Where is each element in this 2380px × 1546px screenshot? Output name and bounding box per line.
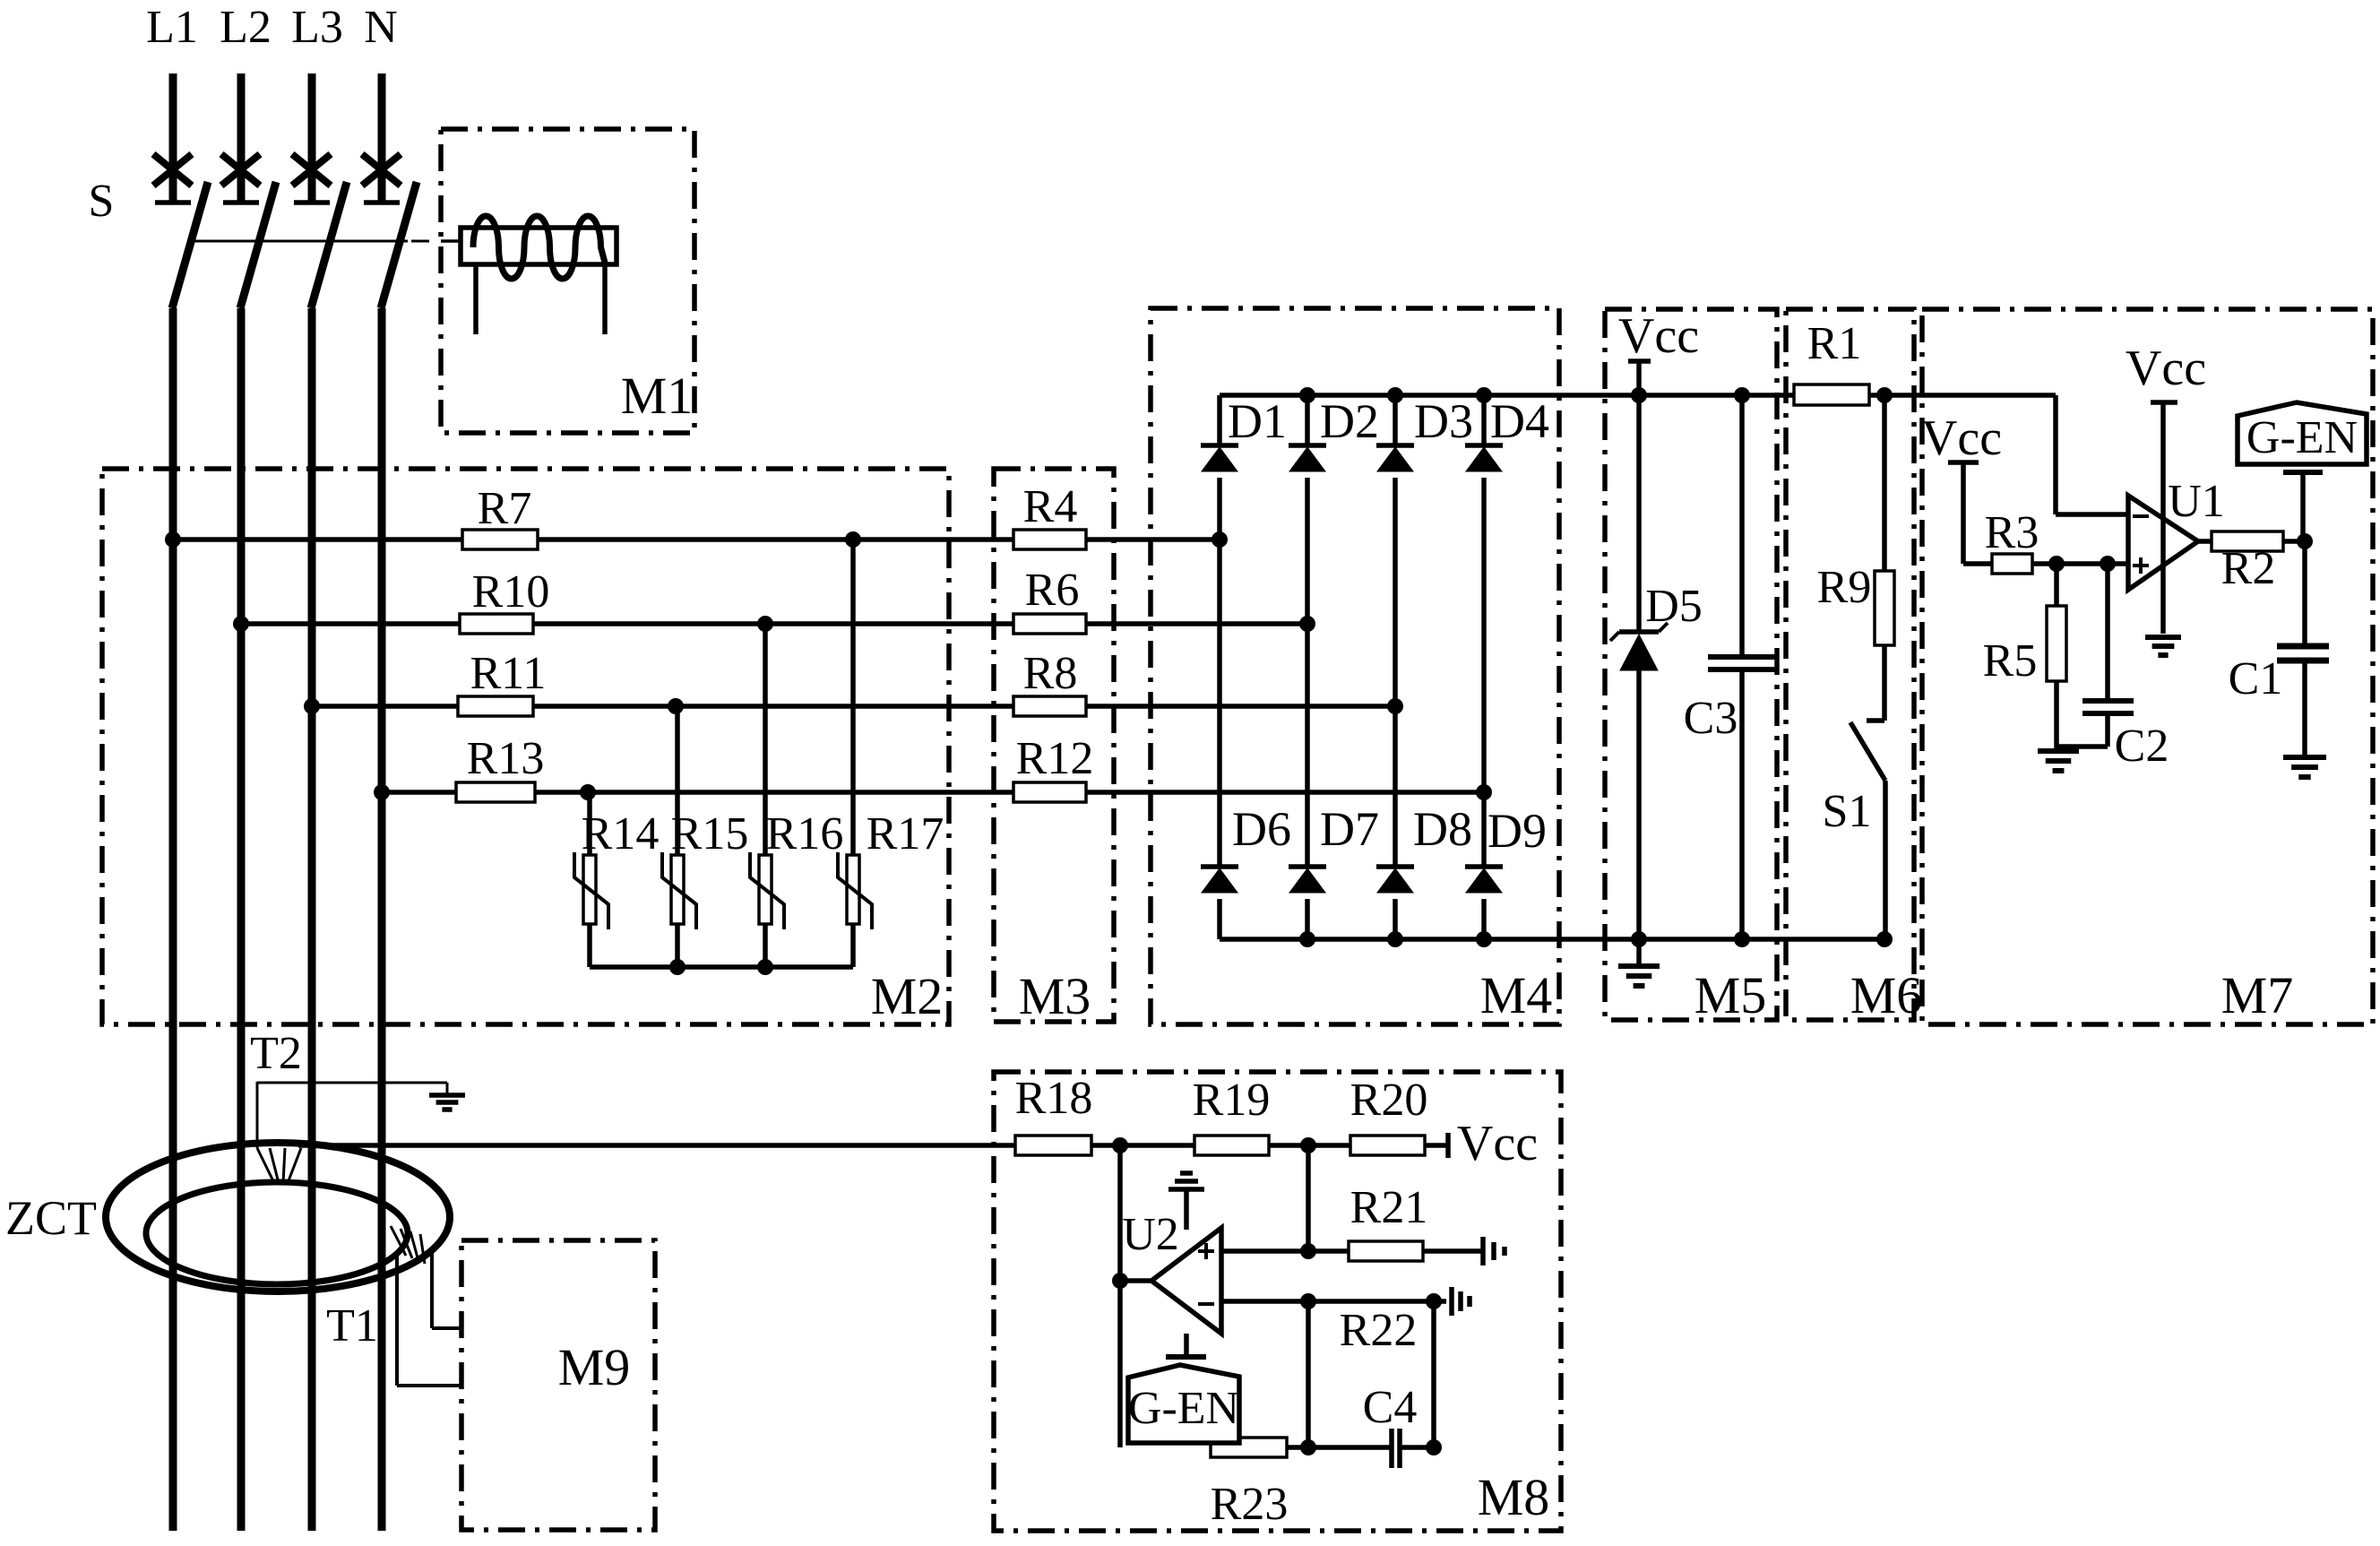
svg-text:R9: R9 [1817,562,1872,613]
svg-text:M7: M7 [2221,966,2294,1024]
svg-text:R14: R14 [582,808,660,859]
svg-text:T1: T1 [326,1300,378,1352]
svg-text:R18: R18 [1015,1073,1093,1124]
svg-text:M9: M9 [558,1338,631,1396]
svg-text:C1: C1 [2229,653,2283,704]
svg-text:R6: R6 [1025,565,1080,616]
svg-text:M1: M1 [621,367,694,425]
svg-text:R12: R12 [1016,733,1094,784]
svg-text:D9: D9 [1487,804,1547,858]
svg-text:D7: D7 [1320,802,1379,856]
svg-text:S: S [89,176,115,227]
svg-text:D2: D2 [1320,394,1379,448]
svg-text:Vcc: Vcc [2126,341,2206,396]
svg-text:G-EN: G-EN [2246,412,2358,463]
svg-text:R5: R5 [1983,635,2038,687]
svg-text:R3: R3 [1985,507,2039,558]
svg-text:R23: R23 [1211,1479,1289,1530]
svg-text:R20: R20 [1350,1075,1428,1126]
svg-text:D3: D3 [1414,394,1473,448]
svg-text:C3: C3 [1684,693,1738,744]
svg-text:D5: D5 [1645,581,1703,632]
svg-text:R1: R1 [1807,318,1862,369]
svg-text:R8: R8 [1023,648,1078,699]
svg-text:S1: S1 [1823,786,1872,837]
svg-text:M3: M3 [1019,967,1091,1025]
svg-text:D8: D8 [1413,802,1472,856]
svg-text:R17: R17 [867,808,944,859]
svg-text:Vcc: Vcc [1921,410,2002,466]
svg-text:M8: M8 [1478,1468,1550,1526]
svg-text:R15: R15 [671,808,749,859]
svg-text:L3: L3 [291,2,343,53]
svg-text:R4: R4 [1023,481,1078,532]
svg-text:M4: M4 [1480,966,1553,1024]
svg-text:T2: T2 [250,1028,302,1079]
svg-text:R21: R21 [1350,1182,1428,1233]
svg-text:G-EN: G-EN [1128,1383,1239,1434]
svg-text:R13: R13 [467,733,545,784]
svg-text:C4: C4 [1363,1382,1418,1433]
svg-text:D1: D1 [1228,394,1287,448]
svg-text:R11: R11 [470,648,547,699]
svg-text:R16: R16 [766,808,844,859]
svg-text:Vcc: Vcc [1618,308,1699,364]
svg-text:D6: D6 [1232,802,1291,856]
svg-text:R22: R22 [1340,1305,1418,1356]
svg-text:ZCT: ZCT [5,1191,97,1245]
svg-text:R7: R7 [478,483,532,534]
svg-text:M6: M6 [1850,966,1923,1024]
svg-text:R19: R19 [1193,1075,1271,1126]
svg-text:N: N [364,2,398,53]
svg-text:M2: M2 [871,967,944,1025]
svg-text:R2: R2 [2221,543,2276,594]
svg-text:D4: D4 [1490,394,1549,448]
svg-text:U1: U1 [2168,476,2225,527]
svg-text:C2: C2 [2115,721,2169,772]
svg-text:M5: M5 [1694,966,1767,1024]
svg-text:L1: L1 [146,2,198,53]
svg-text:R10: R10 [472,566,550,618]
svg-text:Vcc: Vcc [1457,1116,1538,1171]
svg-text:U2: U2 [1122,1209,1179,1260]
svg-text:L2: L2 [220,2,272,53]
